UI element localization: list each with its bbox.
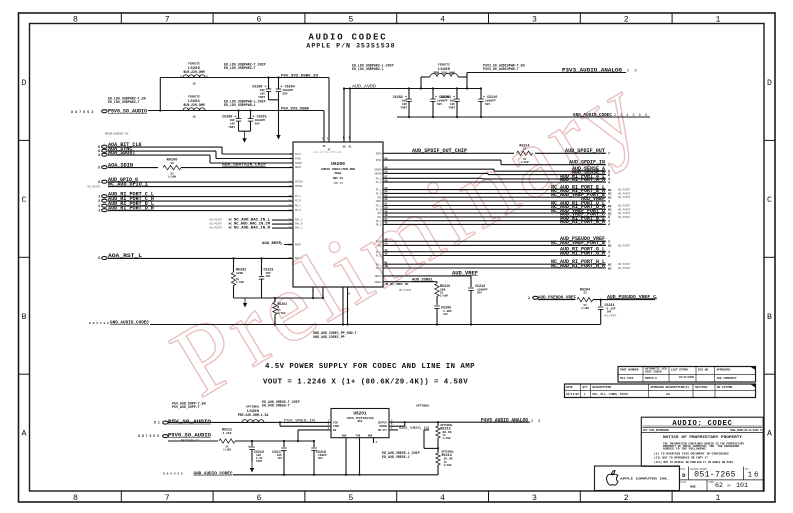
svg-text:41: 41 — [385, 261, 389, 264]
svg-text:P5V0_S0_AUDIO: P5V0_S0_AUDIO — [168, 433, 211, 439]
svg-text:051-7265: 051-7265 — [620, 377, 634, 380]
svg-text:NOTICE OF PROPRIETARY PROPERTY: NOTICE OF PROPRIETARY PROPERTY — [663, 436, 743, 440]
svg-text:NO_POINT: NO_POINT — [618, 208, 631, 211]
svg-text:NO_POINT: NO_POINT — [618, 205, 631, 208]
svg-text:56: 56 — [385, 179, 389, 182]
resistor R6202 — [233, 258, 235, 272]
wire AUD_SENSE_A — [383, 168, 494, 170]
svg-text:NO_POINT: NO_POINT — [618, 192, 631, 195]
wire AUD_PSEUDO_VREF — [383, 240, 606, 242]
svg-text:P4V5_AUDIO_ANALOG: P4V5_AUDIO_ANALOG — [481, 417, 528, 423]
svg-text:PD_L: PD_L — [376, 205, 382, 208]
svg-text:PSVR: PSVR — [376, 240, 382, 243]
svg-text:AOA_BEEP: AOA_BEEP — [262, 242, 281, 246]
svg-text:SDIN: SDIN — [295, 166, 302, 169]
ground arrow below C6200/C6201 — [244, 131, 246, 141]
svg-text:46: 46 — [385, 222, 389, 225]
svg-text:NC: NC — [608, 189, 612, 192]
wire AUD_RI_PORT_A_R — [383, 181, 606, 183]
svg-text:JOE COMPOSIT: JOE COMPOSIT — [717, 377, 737, 380]
wire cap pair join — [269, 99, 279, 101]
svg-text:47: 47 — [385, 218, 389, 221]
svg-text:C6219: C6219 — [254, 450, 264, 454]
svg-text:PA_R: PA_R — [376, 181, 382, 184]
svg-text:PD_R: PD_R — [295, 209, 302, 212]
svg-text:NO_POINT: NO_POINT — [618, 196, 631, 199]
svg-text:2: 2 — [624, 15, 629, 24]
svg-text:PD_R: PD_R — [376, 208, 382, 211]
svg-text:45: 45 — [385, 239, 389, 242]
svg-text:GND: GND — [368, 435, 373, 438]
svg-text:NC: NC — [608, 193, 612, 196]
svg-text:APPROVED-: APPROVED- — [717, 368, 732, 371]
svg-text:NC: NC — [608, 209, 612, 212]
svg-text:10V: 10V — [443, 313, 448, 316]
svg-text:PB_R: PB_R — [376, 224, 382, 227]
svg-text:8: 8 — [98, 180, 100, 184]
ground arrow below C6219 — [251, 462, 253, 471]
capacitor C6201 — [249, 109, 251, 111]
svg-text:(III) NOT TO REVEAL OR PUBLISH: (III) NOT TO REVEAL OR PUBLISH IT IN WHO… — [654, 461, 734, 464]
svg-text:NC: NC — [608, 267, 612, 270]
svg-text:VIN: VIN — [333, 421, 338, 424]
svg-text:TAB: TAB — [356, 435, 361, 438]
wire IC top pins pair — [343, 89, 345, 143]
svg-text:1: 1 — [716, 15, 721, 24]
svg-text:VRD: VRD — [377, 212, 382, 215]
svg-text:3: 3 — [98, 208, 100, 212]
svg-text:1: 1 — [716, 494, 721, 503]
svg-text:MAIN/AUDIO-3V: MAIN/AUDIO-3V — [105, 132, 129, 136]
svg-text:APPLE COMPUTER INC.: APPLE COMPUTER INC. — [620, 478, 670, 481]
svg-text:57: 57 — [385, 176, 389, 179]
wire line1 down to IC pin — [328, 78, 330, 143]
svg-text:4: 4 — [608, 254, 610, 258]
svg-text:BLM-220-OHM: BLM-220-OHM — [183, 103, 204, 107]
svg-text:NO ACTION: NO ACTION — [717, 386, 732, 389]
svg-text:C: C — [767, 196, 772, 205]
svg-text:NO_POINT: NO_POINT — [88, 186, 101, 189]
svg-text:ED_AUD_VREG5-L: ED_AUD_VREG5-L — [382, 455, 410, 459]
svg-text:4: 4 — [440, 494, 445, 503]
svg-text:APPROVED DESCRIPTION(S): APPROVED DESCRIPTION(S) — [651, 385, 690, 389]
svg-text:3: 3 — [98, 194, 100, 198]
apple logo — [607, 470, 618, 485]
wire join R6202/C6221 — [234, 297, 324, 299]
svg-text:SYNC: SYNC — [295, 158, 302, 161]
wire AUD_SPDIF_OUT with resistor R6214 — [383, 152, 514, 154]
svg-text:FERRITE: FERRITE — [188, 63, 200, 66]
svg-text:PART NUMBER: PART NUMBER — [620, 368, 639, 371]
svg-text:NO_POINT: NO_POINT — [618, 189, 631, 192]
svg-text:2 3: 2 3 — [531, 420, 542, 424]
svg-text:FERRITE: FERRITE — [188, 96, 200, 99]
svg-text:2 3: 2 3 — [627, 69, 638, 73]
svg-text:051-7265: 051-7265 — [694, 471, 736, 480]
svg-text:NC: NC — [229, 227, 233, 230]
svg-text:8: 8 — [73, 494, 78, 503]
svg-text:50V: 50V — [318, 457, 323, 460]
svg-text:P5V_3V3_USB0_IO: P5V_3V3_USB0_IO — [281, 74, 319, 78]
svg-text:2: 2 — [624, 494, 629, 503]
svg-text:NO_POINT: NO_POINT — [618, 267, 631, 270]
svg-text:BEEP: BEEP — [295, 244, 302, 247]
svg-text:NONE: NONE — [690, 486, 696, 489]
wire P5V0 line2 — [148, 110, 324, 112]
capacitor C6203 — [456, 87, 458, 89]
ground arrow below C6290/C6204 — [278, 100, 280, 138]
svg-text:100K: 100K — [236, 272, 243, 275]
svg-text:60: 60 — [385, 157, 389, 160]
svg-text:40: 40 — [385, 265, 389, 268]
svg-text:DESCRIPTION: DESCRIPTION — [593, 386, 612, 389]
svg-text:NC_AUD_RI_PORT_H_R: NC_AUD_RI_PORT_H_R — [551, 263, 605, 269]
svg-text:U6200: U6200 — [331, 161, 345, 167]
svg-text:1A: 1A — [192, 116, 196, 119]
svg-text:SENSB: SENSB — [374, 173, 382, 176]
svg-text:REV 03: REV 03 — [333, 177, 343, 180]
capacitor C6211 — [600, 300, 602, 306]
wire line B up to pin 3 — [297, 430, 299, 441]
svg-text:PG_R: PG_R — [376, 255, 382, 258]
svg-text:PE_L: PE_L — [376, 189, 382, 192]
svg-text:50V: 50V — [283, 93, 288, 96]
svg-text:P5V_VREG_IN: P5V_VREG_IN — [284, 419, 315, 423]
ground arrow on join wire — [244, 298, 246, 306]
svg-text:GND_AUDIO_CODEC: GND_AUDIO_CODEC — [573, 112, 612, 118]
svg-text:PROTO-X: PROTO-X — [645, 377, 657, 380]
svg-text:1/16W: 1/16W — [581, 306, 589, 310]
svg-text:C: C — [22, 196, 27, 205]
svg-text:PE_R: PE_R — [376, 193, 382, 196]
svg-text:AUD_RI_PORT_G_R: AUD_RI_PORT_G_R — [560, 250, 605, 256]
svg-text:CODE_NAME/03/14/2005 8: CODE_NAME/03/14/2005 8 — [730, 429, 762, 432]
svg-text:1/16W: 1/16W — [223, 448, 231, 452]
capacitor C6205 — [434, 305, 440, 307]
svg-text:ED_LDO_USB0PWR-L: ED_LDO_USB0PWR-L — [224, 103, 256, 107]
wire supply line A — [168, 421, 331, 423]
wire AUD_RI_PORT_B_R — [383, 223, 606, 225]
svg-text:C6217: C6217 — [272, 450, 282, 454]
svg-text:50V: 50V — [477, 292, 482, 295]
capacitor C6219 — [251, 440, 253, 442]
wire NC_AUD_RI_PORT_E_R — [383, 192, 606, 194]
svg-text:OPTIONAL: OPTIONAL — [246, 405, 260, 408]
op-amp U6200 audio codec IC body — [293, 142, 383, 287]
svg-text:8: 8 — [98, 256, 100, 260]
resistor R6216 — [435, 284, 439, 297]
svg-text:AUD_SPDIF_OUT_CHIP: AUD_SPDIF_OUT_CHIP — [412, 148, 467, 154]
svg-text:8 6 5 4 3 2: 8 6 5 4 3 2 — [89, 322, 109, 325]
svg-text:NO_POINT: NO_POINT — [210, 223, 223, 226]
svg-text:58: 58 — [385, 171, 389, 174]
svg-text:55: 55 — [385, 187, 389, 190]
svg-text:16V: 16V — [607, 310, 612, 313]
grid column ticks top/bottom — [120, 13, 122, 24]
svg-text:42: 42 — [385, 253, 389, 256]
svg-text:NC: NC — [229, 219, 233, 222]
svg-text:GND_AUDIO_CODEC: GND_AUDIO_CODEC — [194, 470, 233, 476]
svg-text:NO_POINT: NO_POINT — [618, 216, 631, 219]
svg-text:ZOBEL: ZOBEL — [374, 281, 382, 284]
svg-text:8 6 5 4 3 2: 8 6 5 4 3 2 — [163, 473, 183, 476]
svg-text:6: 6 — [257, 494, 262, 503]
svg-text:REG: REG — [358, 420, 363, 423]
wire AUD_VREF_PORT_C — [383, 216, 606, 218]
svg-text:PH_L: PH_L — [376, 263, 382, 266]
svg-text:SD-VTT: SD-VTT — [378, 429, 388, 432]
svg-text:OF: OF — [727, 484, 731, 487]
svg-text:GND: GND — [342, 435, 347, 438]
svg-text:16V: 16V — [266, 275, 271, 278]
svg-text:C6218: C6218 — [316, 450, 326, 454]
wire AUD_AVDD rail — [344, 88, 481, 90]
svg-text:P3V3_S0_AUDIOPWR-T: P3V3_S0_AUDIOPWR-T — [483, 67, 519, 71]
svg-text:6: 6 — [257, 15, 262, 24]
wire AUD_VREG_IB — [389, 429, 398, 431]
svg-text:NC_AUD_RAC_IN_R: NC_AUD_RAC_IN_R — [234, 226, 270, 230]
svg-text:TANT: TANT — [256, 460, 263, 463]
svg-text:AUD_SPDIF_IN: AUD_SPDIF_IN — [569, 160, 605, 166]
svg-text:SCLK: SCLK — [295, 153, 302, 156]
svg-text:RAC_C: RAC_C — [295, 227, 303, 230]
svg-text:03/14/05: 03/14/05 — [566, 392, 579, 396]
capacitor C6217 — [283, 440, 285, 442]
svg-text:NC_AUD_VREF_PORT_B: NC_AUD_VREF_PORT_B — [551, 240, 605, 246]
resistor R6212 — [437, 421, 439, 423]
svg-text:PA_L: PA_L — [376, 177, 382, 180]
svg-text:8: 8 — [98, 165, 100, 169]
svg-text:1/16W: 1/16W — [236, 280, 244, 284]
svg-text:8: 8 — [73, 15, 78, 24]
svg-text:NO_POINT: NO_POINT — [399, 289, 412, 292]
svg-text:8: 8 — [98, 153, 100, 157]
wire AUD_RI_PORT_B_L — [383, 220, 606, 222]
svg-text:59: 59 — [385, 166, 389, 169]
svg-text:4: 4 — [440, 15, 445, 24]
svg-text:ED_LDO_USBPWR2-T: ED_LDO_USBPWR2-T — [224, 66, 256, 70]
svg-text:ED_LDO_USBPWR2-T: ED_LDO_USBPWR2-T — [108, 100, 140, 104]
svg-text:TANT: TANT — [448, 106, 455, 109]
svg-text:VRC: VRC — [377, 216, 382, 219]
svg-text:ED_AUD_VREG5-T: ED_AUD_VREG5-T — [262, 404, 290, 408]
svg-text:P3V3_AUDIO_ANALOG: P3V3_AUDIO_ANALOG — [562, 67, 622, 73]
svg-text:1/16W: 1/16W — [440, 293, 448, 297]
svg-text:3: 3 — [655, 297, 657, 301]
svg-text:SIZE: SIZE — [680, 467, 686, 470]
wire AUD_RI_PORT_A_L — [383, 177, 482, 179]
svg-text:43: 43 — [385, 249, 389, 252]
wire AUD_RI_PORT_G_R — [383, 255, 606, 257]
svg-text:TANT: TANT — [400, 106, 407, 109]
svg-text:50V: 50V — [255, 122, 260, 125]
wire AUD_SENSE_B — [383, 172, 488, 174]
svg-text:NC: NC — [608, 245, 612, 248]
title block frame — [641, 417, 763, 491]
svg-text:4: 4 — [608, 180, 610, 184]
wire U6201 output — [389, 421, 530, 423]
svg-text:VIN2: VIN2 — [333, 425, 340, 428]
capacitor C6200 — [237, 109, 239, 111]
svg-text:VREF: VREF — [376, 200, 382, 203]
svg-text:1/16W: 1/16W — [521, 160, 529, 164]
svg-text:54: 54 — [385, 191, 389, 194]
svg-text:GND_AUDIO_CODEC: GND_AUDIO_CODEC — [110, 320, 149, 326]
svg-text:10: 10 — [347, 293, 351, 296]
svg-text:VOUT = 1.2246 X (1+ (80.6K/29.: VOUT = 1.2246 X (1+ (80.6K/29.4K)) = 4.5… — [263, 379, 468, 387]
capacitor C6218 — [313, 440, 315, 442]
wire cap pair join 2 — [239, 130, 251, 132]
svg-text:52: 52 — [385, 198, 389, 201]
svg-text:EN: EN — [333, 429, 337, 432]
svg-text:SENSE: SENSE — [379, 425, 387, 428]
svg-text:NO_POINT: NO_POINT — [618, 244, 631, 247]
svg-text:41 NC_VREF NC: 41 NC_VREF NC — [385, 283, 409, 286]
IC bottom pins to join wire — [312, 287, 314, 298]
svg-text:SPDI: SPDI — [376, 159, 382, 162]
svg-text:101: 101 — [736, 482, 748, 489]
svg-text:PG_L: PG_L — [376, 251, 382, 254]
svg-text:NO_STUFF: NO_STUFF — [605, 315, 618, 318]
svg-text:1/16W: 1/16W — [168, 175, 176, 179]
svg-text:VDD IO: VDD IO — [333, 182, 343, 185]
svg-text:62: 62 — [715, 482, 723, 489]
wire NC_AUD_RI_PORT_E_L — [383, 189, 606, 191]
wire NC_AUD_VREF_PORT_D — [383, 212, 606, 214]
svg-text:SENSA: SENSA — [374, 168, 382, 171]
svg-text:OPTIONAL: OPTIONAL — [416, 404, 430, 407]
resistor R6201 — [274, 297, 276, 299]
capacitor C6216 — [480, 87, 482, 89]
svg-text:AUDIO CODEC: AUDIO CODEC — [309, 33, 388, 43]
wire NC_AUD_RI_PORT_H_L — [383, 263, 606, 265]
svg-text:BLM-220-OHM: BLM-220-OHM — [183, 70, 204, 74]
wire ground rail top-right — [397, 116, 650, 118]
svg-text:3: 3 — [98, 204, 100, 208]
watermark Preliminary — [154, 55, 657, 418]
wire pin2 sense — [280, 425, 331, 427]
grid row ticks left/right — [19, 139, 30, 141]
svg-text:AOA_SDATAIN_CHIP: AOA_SDATAIN_CHIP — [222, 162, 266, 168]
svg-text:RST_L: RST_L — [295, 257, 303, 260]
svg-text:16V: 16V — [277, 457, 282, 460]
svg-text:AUD_RI_PORT_B_R: AUD_RI_PORT_B_R — [560, 219, 605, 225]
svg-text:DATE: DATE — [566, 386, 573, 389]
svg-text:GPIO1: GPIO1 — [295, 185, 303, 188]
svg-text:PBGA: PBGA — [335, 172, 342, 175]
size / drawing number / rev row — [678, 467, 680, 491]
svg-text:PH_R: PH_R — [376, 267, 382, 270]
svg-text:FER-220-OHM-1.5A: FER-220-OHM-1.5A — [238, 413, 269, 417]
svg-text:16: 16 — [748, 472, 761, 480]
svg-text:B: B — [22, 313, 27, 322]
apple logo box — [595, 466, 680, 491]
svg-text:SECTION-: SECTION- — [695, 386, 709, 389]
svg-text:NC: NC — [608, 264, 612, 267]
svg-text:7: 7 — [165, 494, 170, 503]
svg-text:10: 10 — [170, 162, 174, 165]
svg-text:+: + — [248, 445, 250, 449]
svg-text:FERRITE: FERRITE — [438, 64, 450, 67]
svg-text:2: 2 — [528, 296, 530, 300]
wire NC_AUD_VREF_PORT_E — [383, 196, 606, 198]
svg-text:8 1: 8 1 — [154, 421, 160, 425]
svg-text:AUDIO CODEC/PWR-MGR: AUDIO CODEC/PWR-MGR — [321, 167, 355, 171]
svg-text:7: 7 — [608, 163, 610, 167]
revision table lower — [565, 384, 756, 398]
svg-text:NC: NC — [608, 205, 612, 208]
svg-text:5: 5 — [348, 15, 353, 24]
svg-text:GPIO0: GPIO0 — [295, 181, 303, 184]
svg-text:OPTIONAL: OPTIONAL — [442, 451, 455, 454]
svg-text:TANT: TANT — [228, 126, 235, 129]
svg-text:TANT: TANT — [258, 96, 265, 99]
svg-text:1/16W: 1/16W — [443, 436, 451, 440]
wire NC_AUD_VREF_PORT_B — [383, 244, 606, 246]
svg-text:GND_AUD_CODEC_PP: GND_AUD_CODEC_PP — [313, 335, 345, 339]
svg-text:NC: NC — [280, 243, 284, 246]
svg-text:(I) TO MAINTAIN THIS DOCUMENT: (I) TO MAINTAIN THIS DOCUMENT IN CONFIDE… — [654, 452, 730, 455]
svg-text:A: A — [767, 430, 772, 439]
svg-text:AUD_PSEUDO_VREF_C: AUD_PSEUDO_VREF_C — [607, 294, 656, 300]
svg-text:RAC_L: RAC_L — [295, 219, 303, 222]
wire U6201 gnd pins — [345, 438, 347, 475]
svg-text:OPTIONAL: OPTIONAL — [441, 424, 454, 427]
svg-text:44: 44 — [385, 243, 389, 246]
svg-text:SPDO: SPDO — [376, 152, 382, 155]
svg-text:ED_LDO_USBPWR2-L: ED_LDO_USBPWR2-L — [352, 67, 384, 71]
svg-text:4: 4 — [608, 223, 610, 227]
svg-text:PC_L: PC_L — [295, 195, 302, 198]
svg-text:P5V0_S0_AUDIO: P5V0_S0_AUDIO — [108, 109, 147, 115]
svg-text:COST CHECK: COST CHECK — [645, 370, 662, 373]
capacitor C6204 — [277, 76, 279, 78]
svg-text:051-7265_MAINBOARD: 051-7265_MAINBOARD — [643, 429, 669, 432]
svg-text:NO_POINT: NO_POINT — [210, 227, 223, 230]
svg-text:4.5V POWER SUPPLY FOR CODEC AN: 4.5V POWER SUPPLY FOR CODEC AND LINE IN … — [265, 363, 475, 371]
wire NC_AUD_RI_PORT_D_R — [383, 208, 606, 210]
svg-text:3: 3 — [532, 15, 537, 24]
svg-text:APPLE P/N 353S1538: APPLE P/N 353S1538 — [306, 42, 395, 49]
wire AUD_VREF — [383, 200, 606, 202]
wire U6201 sense tie — [404, 422, 406, 426]
svg-text:P5V_3V3_USB0: P5V_3V3_USB0 — [281, 107, 310, 111]
svg-text:33: 33 — [583, 292, 587, 295]
svg-text:PB_L: PB_L — [376, 220, 382, 223]
svg-text:AUD_RI_PORT_A_R: AUD_RI_PORT_A_R — [560, 177, 605, 183]
svg-text:XTAL_IN/XTAL_OUT/CLKIN: XTAL_IN/XTAL_OUT/CLKIN — [313, 151, 343, 154]
svg-text:SCALE: SCALE — [680, 481, 687, 484]
svg-text:1/16W: 1/16W — [278, 311, 286, 315]
svg-text:U6201: U6201 — [353, 412, 367, 417]
scale / sheet row — [679, 479, 763, 481]
svg-text:P5V_AUD_SUPP-T: P5V_AUD_SUPP-T — [172, 405, 200, 409]
revision table upper — [618, 367, 756, 383]
capacitor C6220 — [432, 87, 434, 89]
svg-text:A: A — [22, 430, 27, 439]
svg-text:NO_POINT: NO_POINT — [618, 263, 631, 266]
svg-text:ALL: ALL — [666, 393, 671, 396]
svg-text:2: 2 — [608, 240, 610, 244]
svg-text:3: 3 — [532, 494, 537, 503]
svg-text:PDL, PLL, LINKS, STATS: PDL, PLL, LINKS, STATS — [593, 393, 629, 396]
svg-text:LAST EFFDR: LAST EFFDR — [671, 368, 688, 371]
svg-text:50: 50 — [385, 207, 389, 210]
wire junction vertical to line1 — [159, 78, 161, 111]
svg-text:2.21K: 2.21K — [222, 432, 231, 435]
IC bottom pins to ground rail — [342, 287, 344, 325]
svg-text:VRB: VRB — [377, 245, 382, 248]
